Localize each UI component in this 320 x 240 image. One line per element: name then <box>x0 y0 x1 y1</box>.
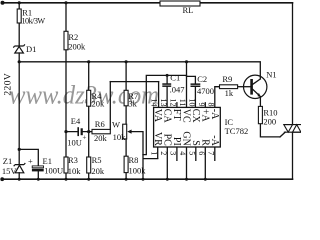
svg-text:RL: RL <box>183 5 194 15</box>
svg-text:4700: 4700 <box>197 86 214 96</box>
svg-text:.047: .047 <box>170 85 185 95</box>
svg-text:200: 200 <box>263 116 276 126</box>
svg-text:CX: CX <box>190 109 201 124</box>
svg-text:PC: PC <box>161 134 172 147</box>
svg-text:20k: 20k <box>92 98 106 108</box>
svg-text:FT: FT <box>171 109 182 121</box>
svg-text:13: 13 <box>159 99 168 107</box>
svg-text:10k/3W: 10k/3W <box>22 16 46 25</box>
svg-text:4: 4 <box>178 151 187 155</box>
svg-text:R5: R5 <box>92 155 102 165</box>
svg-text:3k: 3k <box>128 98 137 108</box>
svg-text:10: 10 <box>188 99 197 107</box>
svg-text:-A: -A <box>209 109 220 120</box>
svg-text:5: 5 <box>188 151 197 155</box>
svg-text:R: R <box>199 139 210 146</box>
svg-text:+A: +A <box>199 109 210 123</box>
svg-text:10k: 10k <box>68 166 82 176</box>
svg-text:1: 1 <box>150 151 159 155</box>
svg-text:PI: PI <box>171 137 182 146</box>
svg-text:10k: 10k <box>113 132 127 142</box>
svg-text:C2: C2 <box>197 74 207 84</box>
svg-text:N1: N1 <box>266 69 276 79</box>
svg-text:20k: 20k <box>94 133 108 143</box>
svg-text:11: 11 <box>178 99 187 107</box>
svg-text:W: W <box>112 120 120 130</box>
svg-text:D1: D1 <box>26 44 36 54</box>
svg-text:12: 12 <box>169 99 178 107</box>
svg-text:200k: 200k <box>68 41 86 51</box>
svg-text:Z1: Z1 <box>3 156 12 166</box>
svg-text:100U: 100U <box>44 166 63 176</box>
svg-text:+: + <box>83 134 87 142</box>
svg-text:8: 8 <box>207 103 216 107</box>
svg-text:S: S <box>190 140 201 146</box>
svg-text:C1: C1 <box>170 72 180 82</box>
svg-text:-A: -A <box>209 135 220 146</box>
svg-text:15V: 15V <box>2 166 18 176</box>
svg-text:9: 9 <box>197 103 206 107</box>
svg-text:1k: 1k <box>225 88 234 98</box>
svg-text:TC782: TC782 <box>225 126 249 136</box>
svg-text:CA: CA <box>161 109 172 124</box>
svg-text:220V: 220V <box>4 73 14 96</box>
svg-text:3: 3 <box>169 151 178 155</box>
svg-text:7: 7 <box>207 151 216 155</box>
svg-text:R9: R9 <box>222 74 232 84</box>
svg-text:6: 6 <box>197 151 206 155</box>
svg-text:E4: E4 <box>71 116 81 126</box>
svg-text:E1: E1 <box>43 156 52 166</box>
svg-text:20k: 20k <box>91 166 105 176</box>
svg-text:2: 2 <box>159 151 168 155</box>
svg-text:100k: 100k <box>129 166 147 176</box>
svg-text:R6: R6 <box>95 119 105 129</box>
svg-text:10U: 10U <box>67 137 82 147</box>
svg-text:R3: R3 <box>68 155 78 165</box>
svg-text:14: 14 <box>150 99 159 107</box>
svg-text:R8: R8 <box>129 155 139 165</box>
svg-text:+: + <box>28 156 33 166</box>
